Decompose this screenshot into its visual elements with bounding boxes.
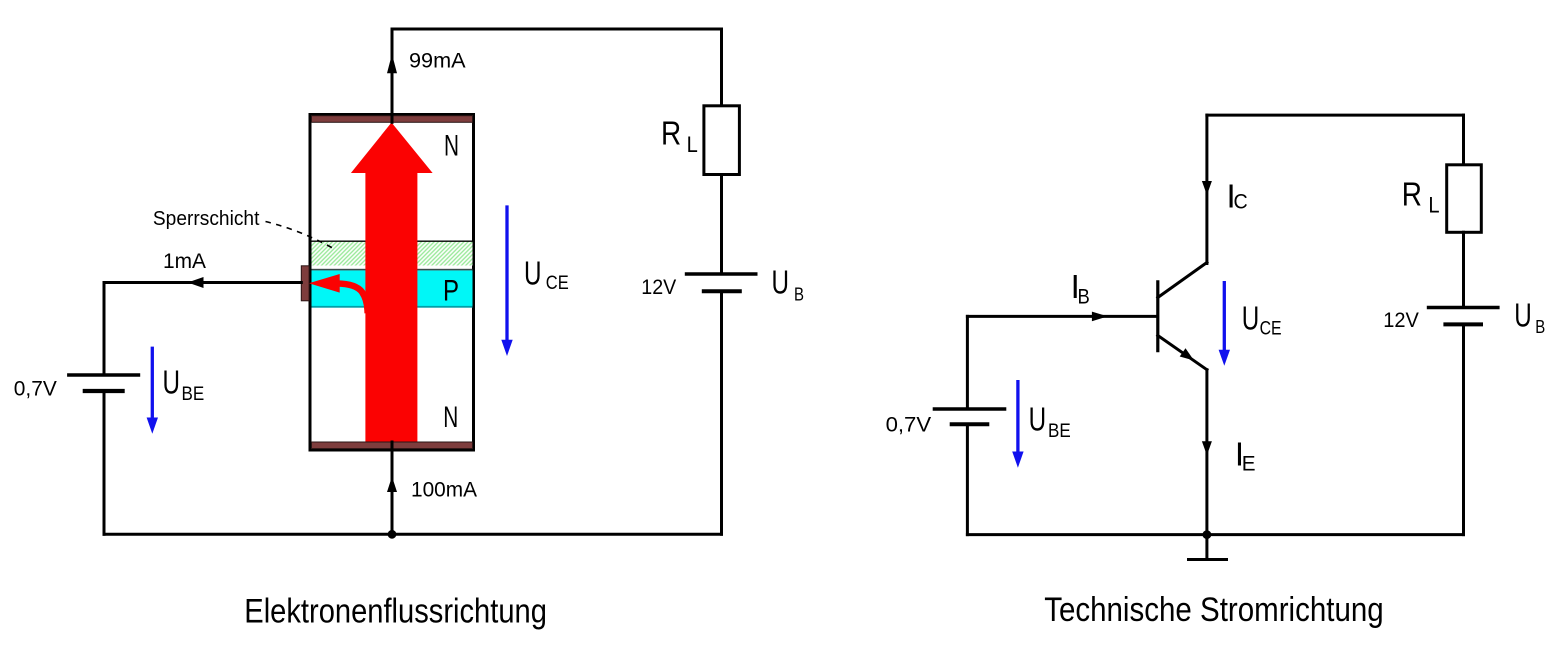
svg-text:100mA: 100mA xyxy=(411,479,477,502)
emitter arrowhead xyxy=(1180,348,1194,360)
wire battery to bottom xyxy=(720,291,723,534)
wire emitter vertical below box xyxy=(391,451,394,534)
wire emitter vertical xyxy=(1205,370,1208,535)
svg-text:Elektronenflussrichtung: Elektronenflussrichtung xyxy=(244,593,547,631)
wire stub through top metal bar xyxy=(391,113,394,122)
wire left branch vertical lower xyxy=(966,424,969,534)
svg-text:0,7V: 0,7V xyxy=(886,414,932,437)
wire battery to bottom (right) xyxy=(1462,324,1465,534)
transistor Q1 base bar xyxy=(1156,282,1159,351)
svg-text:CE: CE xyxy=(1260,319,1282,340)
svg-text:Sperrschicht: Sperrschicht xyxy=(153,208,260,230)
wire bottom horizontal xyxy=(104,533,722,536)
battery UB short plate xyxy=(704,289,740,293)
svg-text:E: E xyxy=(1242,452,1256,475)
svg-text:U: U xyxy=(163,363,181,400)
battery UB long plate (right) xyxy=(1429,306,1498,309)
svg-text:12V: 12V xyxy=(1383,309,1419,332)
battery UBE long plate (right circuit) xyxy=(934,407,1004,410)
battery UB long plate xyxy=(687,272,756,275)
wire top horizontal xyxy=(1207,114,1464,117)
svg-text:L: L xyxy=(687,132,698,157)
svg-text:12V: 12V xyxy=(641,276,676,299)
battery UBE short plate (right circuit) xyxy=(952,422,988,426)
big red electron-flow arrow xyxy=(351,123,433,442)
wire bottom horizontal xyxy=(967,533,1463,536)
arrow up 99mA xyxy=(387,54,397,73)
node junction dot (emitter/ground) xyxy=(1203,530,1212,539)
svg-text:1mA: 1mA xyxy=(163,250,206,273)
wire collector vertical xyxy=(1205,115,1208,263)
resistor RL box xyxy=(704,106,740,175)
emitter metal bar (bottom brown) xyxy=(312,442,473,449)
svg-text:R: R xyxy=(661,115,681,152)
base curved red arrow xyxy=(337,284,368,311)
wire RL to battery xyxy=(1462,232,1465,307)
base wire horizontal xyxy=(104,281,301,284)
svg-text:U: U xyxy=(1242,300,1260,337)
battery UBE short plate xyxy=(85,389,123,393)
resistor RL box (right) xyxy=(1447,165,1482,233)
svg-text:L: L xyxy=(1428,193,1439,218)
wire left branch vertical upper xyxy=(966,316,969,409)
svg-text:U: U xyxy=(772,264,790,301)
svg-text:U: U xyxy=(1029,401,1047,438)
svg-text:P: P xyxy=(443,275,459,308)
svg-text:C: C xyxy=(1234,191,1248,214)
emitter diagonal xyxy=(1158,336,1207,370)
wire top horizontal (collector to RL branch) xyxy=(392,28,722,31)
svg-text:B: B xyxy=(1535,317,1545,337)
node junction dot xyxy=(388,530,397,539)
arrow down IE xyxy=(1202,441,1212,455)
svg-text:N: N xyxy=(444,130,459,163)
collector diagonal xyxy=(1158,263,1207,298)
svg-text:0,7V: 0,7V xyxy=(14,378,57,401)
arrow UBE blue (right) xyxy=(1016,382,1019,454)
base contact (brown) xyxy=(301,266,309,301)
wire RL branch vertical upper xyxy=(720,29,723,106)
wire left vertical upper xyxy=(103,283,106,376)
arrow right IB xyxy=(1092,312,1108,322)
wire collector vertical above box xyxy=(391,29,394,114)
arrow up 100mA xyxy=(387,477,397,493)
battery UB short plate (right) xyxy=(1445,322,1481,326)
collector metal bar (top brown) xyxy=(312,116,473,123)
ground bar xyxy=(1189,558,1227,561)
svg-text:CE: CE xyxy=(546,273,569,294)
arrow UCE blue (right) xyxy=(1223,283,1226,352)
battery UBE long plate xyxy=(69,373,139,376)
svg-text:Technische Stromrichtung: Technische Stromrichtung xyxy=(1044,591,1384,629)
Sperrschicht hatch band xyxy=(312,242,473,266)
base wire horizontal xyxy=(967,315,1156,318)
svg-text:B: B xyxy=(794,284,804,304)
svg-text:B: B xyxy=(1078,286,1090,309)
svg-text:99mA: 99mA xyxy=(409,50,466,73)
arrow UCE blue (left circuit) xyxy=(505,207,508,342)
wire between RL and battery xyxy=(720,175,723,275)
arrow left 1mA xyxy=(188,277,204,288)
svg-text:BE: BE xyxy=(1048,421,1071,442)
svg-text:R: R xyxy=(1402,175,1422,212)
arrow down IC xyxy=(1202,181,1212,195)
svg-text:U: U xyxy=(524,255,542,292)
svg-text:BE: BE xyxy=(182,384,205,405)
arrow UBE blue xyxy=(151,348,154,420)
svg-text:U: U xyxy=(1514,296,1532,333)
ground stub xyxy=(1205,535,1208,560)
svg-text:N: N xyxy=(443,401,458,434)
P region cyan band xyxy=(312,270,473,306)
pointer dashed line xyxy=(266,222,333,249)
wire left vertical lower xyxy=(103,391,106,534)
wire stub through bottom metal bar xyxy=(391,442,394,451)
transistor body box xyxy=(310,115,474,451)
wire right branch vertical upper xyxy=(1462,115,1465,165)
